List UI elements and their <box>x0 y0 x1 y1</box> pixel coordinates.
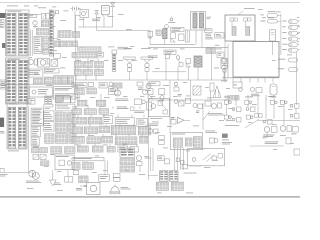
component GC3 <box>291 127 298 135</box>
header label top-left2 <box>24 5 29 8</box>
divider wire <box>0 83 78 85</box>
label alarm siren <box>121 187 131 189</box>
connector edge AH1 <box>294 149 300 155</box>
connector ER3 <box>66 41 72 47</box>
wire <box>249 78 251 83</box>
box BL7 <box>88 83 93 87</box>
connector LM1 <box>54 54 61 59</box>
label LE7 <box>0 174 8 176</box>
label ground G2 <box>54 183 61 185</box>
label battery <box>63 10 68 13</box>
amp cluster TA1 <box>171 117 190 124</box>
inline conn SX4 <box>176 158 184 164</box>
connector BL1 <box>32 148 39 153</box>
component IG7 <box>185 30 189 42</box>
wire <box>177 148 179 170</box>
ECM pin sym2 <box>244 18 251 35</box>
stack SK1 <box>120 148 135 157</box>
label glow <box>215 44 220 47</box>
pair sym PA2 <box>232 107 241 112</box>
wire <box>75 134 77 137</box>
wire <box>283 104 285 125</box>
wire <box>257 98 259 114</box>
pair sym PB1 <box>245 97 253 105</box>
cluster TC1 <box>174 100 184 106</box>
connector EW1 <box>58 31 71 38</box>
wire <box>265 98 267 120</box>
connector DP2 <box>36 28 48 35</box>
wire <box>273 95 275 100</box>
wire <box>104 161 106 175</box>
sensor pill 1 <box>282 20 299 24</box>
sensor LV3 <box>174 82 182 96</box>
pair sym PA1 <box>224 97 231 105</box>
connector G6 <box>95 70 104 76</box>
connector BL5 <box>41 161 49 166</box>
page bottom rule <box>0 196 300 197</box>
wire <box>152 71 186 73</box>
relay box RB1 <box>54 87 77 100</box>
wire <box>169 80 171 100</box>
connector column C3 <box>49 10 53 56</box>
box SC <box>98 52 104 57</box>
sensor pill 3 <box>282 31 300 35</box>
wire <box>119 124 121 127</box>
wire <box>131 115 133 118</box>
connector R4A <box>72 127 83 134</box>
wire <box>100 94 102 100</box>
wire <box>78 26 113 28</box>
wire <box>264 78 266 83</box>
relay RC1 <box>55 96 62 103</box>
wire <box>190 80 192 100</box>
ECM box U1 <box>225 15 255 41</box>
connector RC9 <box>55 134 67 143</box>
wire <box>75 75 77 80</box>
DLC connector A <box>156 182 168 190</box>
connector MC3 <box>45 134 54 143</box>
connector R5B <box>87 137 101 144</box>
transmission box U2 <box>233 42 279 78</box>
connector R5A <box>72 136 84 143</box>
wire <box>75 15 77 98</box>
pair sym PC3 <box>290 104 299 109</box>
relay group box TG1 <box>171 133 203 150</box>
connector BL8 <box>74 89 84 95</box>
wire <box>4 172 29 174</box>
wire <box>240 78 242 83</box>
label box LB1 <box>148 82 160 86</box>
label MS11 <box>214 67 219 70</box>
sensor TA3 <box>148 129 158 134</box>
wire <box>112 106 114 109</box>
pair sym PA4 <box>232 118 241 123</box>
wire <box>125 106 127 109</box>
wire <box>201 30 203 47</box>
connector LE2 <box>0 20 4 28</box>
wire <box>133 124 135 127</box>
connector SB2 <box>27 99 35 104</box>
box TC2 <box>185 99 190 104</box>
label MS4 <box>148 56 158 58</box>
label strip LM2 <box>44 68 59 73</box>
wire <box>97 58 99 61</box>
wire <box>88 134 90 137</box>
wire <box>150 148 152 171</box>
wire <box>247 95 249 100</box>
wire bus left pair <box>31 30 33 56</box>
branch group BG2 <box>251 88 263 97</box>
wire <box>139 166 141 173</box>
wire <box>75 106 77 109</box>
junction block J3 <box>0 118 4 127</box>
connector IG2 <box>156 30 161 35</box>
wire <box>257 95 259 100</box>
relay pair RL1 <box>42 13 50 19</box>
connector R4D wide <box>111 126 135 135</box>
label circuit opening relay <box>92 19 100 21</box>
fuel gauge cluster <box>29 170 39 179</box>
oxygen sensor tree 2 <box>141 57 153 80</box>
connector R3B <box>88 117 102 124</box>
valve MS5 <box>186 59 191 68</box>
component LV5 <box>210 83 214 91</box>
stack SK3 <box>120 166 135 172</box>
sensor pill 4 <box>282 37 300 41</box>
connector LM6 <box>54 76 60 84</box>
wire <box>85 75 87 80</box>
wire <box>177 66 179 80</box>
wire <box>136 144 138 146</box>
node circle NC1 <box>165 25 169 29</box>
connector R4B <box>84 127 98 134</box>
label R2D <box>134 111 145 113</box>
wire <box>128 134 130 137</box>
connector LM8 <box>68 76 74 84</box>
fuse list FL3 <box>31 138 39 146</box>
box SX2 <box>158 156 165 161</box>
ground G2 <box>50 170 57 186</box>
connector RC7 <box>55 123 66 132</box>
wire <box>103 115 105 118</box>
connector R4C <box>99 126 110 133</box>
valve IG5 <box>171 33 176 42</box>
label transmission TB2 <box>150 117 162 120</box>
sensor row RS1 <box>261 11 281 17</box>
pair sym PB4 <box>255 114 262 118</box>
scattered wire labels <box>27 6 299 194</box>
bus wire BW3 <box>222 77 279 79</box>
generator cluster GC2 <box>280 126 291 132</box>
label box R3D <box>115 118 134 126</box>
connector G3 <box>95 61 104 67</box>
connector RC10 <box>69 134 75 143</box>
connector R6A <box>77 146 88 152</box>
wire <box>202 103 204 130</box>
branch group BG1 <box>228 82 242 100</box>
label fuel sender <box>26 181 41 183</box>
connector SB3 <box>26 98 28 100</box>
wire <box>79 144 81 146</box>
wire <box>224 41 226 78</box>
ignition switch IG1 <box>38 58 50 67</box>
connector G4 <box>74 70 82 76</box>
label box MS1 <box>164 50 176 55</box>
funnel LV6 <box>213 86 221 98</box>
wire <box>97 30 150 32</box>
cluster LV2 <box>158 89 165 102</box>
wire <box>112 13 114 27</box>
wire <box>174 148 176 170</box>
connector ER2 <box>59 41 65 47</box>
pair sym PB2 <box>246 107 255 112</box>
wire <box>257 78 259 83</box>
wire <box>94 144 96 146</box>
label strip BL6 <box>72 83 87 88</box>
label strip IG8 <box>205 29 212 33</box>
connector N6 <box>79 176 88 183</box>
label rear defogger <box>225 124 239 127</box>
connector R2B <box>84 109 96 115</box>
wire <box>169 98 171 133</box>
label R1C <box>115 99 128 101</box>
wire <box>87 58 89 61</box>
label ignition <box>38 6 46 9</box>
wire diag RD1 <box>245 119 259 128</box>
wire <box>115 134 117 137</box>
connector R6B <box>92 146 103 152</box>
wire <box>182 148 184 170</box>
cluster R1D <box>134 99 145 105</box>
box MS9 <box>217 52 224 58</box>
ecu box BR3 <box>55 155 74 170</box>
connector R1A <box>77 100 87 106</box>
connector BR2 <box>65 147 75 153</box>
connector MS7 <box>206 48 211 53</box>
starting box SB1 <box>29 87 52 97</box>
wire <box>50 16 52 41</box>
diode D2 <box>95 11 99 15</box>
connector strip SB <box>72 53 97 58</box>
box pair N8 <box>113 173 120 181</box>
connector IG3 <box>148 31 153 38</box>
junction strip RC4 <box>55 104 75 111</box>
connector DP5 <box>42 49 48 54</box>
wire <box>83 18 85 28</box>
wire <box>87 68 89 70</box>
connector DP3 <box>42 37 48 42</box>
wire <box>148 174 158 176</box>
DLC connector B <box>171 182 183 190</box>
wire <box>99 106 101 109</box>
connector G1 <box>74 61 82 67</box>
strip T3 <box>44 105 53 108</box>
tall connector T2 <box>49 96 52 104</box>
label box CPS <box>171 27 184 31</box>
connector RC2 <box>64 96 71 103</box>
wire <box>225 104 227 115</box>
label strip LS1 <box>72 157 104 161</box>
ECM pin sym1 <box>230 18 238 35</box>
oxygen sensor tree 1 <box>124 57 136 80</box>
wire <box>147 100 149 180</box>
wire <box>74 124 76 127</box>
box N2 <box>73 171 78 175</box>
box R3C <box>103 116 113 124</box>
wire <box>149 30 151 45</box>
label RD3 <box>222 142 232 144</box>
horn relay circle <box>33 21 37 29</box>
cylinder MS10 <box>221 59 228 69</box>
connector BL2 <box>40 148 48 153</box>
bus wire BW5 <box>148 99 230 101</box>
wire <box>76 15 81 17</box>
label box IG9 <box>215 33 224 38</box>
fuse list FL1 <box>31 108 44 125</box>
connector RC6 <box>68 113 75 122</box>
connector strip SA <box>78 47 101 51</box>
wire <box>272 78 274 83</box>
connector LM5 <box>44 77 52 84</box>
valve V1 <box>110 2 115 13</box>
wire <box>78 95 80 101</box>
connector ER4 <box>73 41 78 47</box>
wire <box>95 75 97 80</box>
box R6E <box>130 147 138 152</box>
wire <box>187 67 189 80</box>
connector R6C <box>107 147 115 152</box>
distributor D0 <box>51 12 55 20</box>
wire <box>143 115 145 118</box>
cluster BL12 <box>113 83 122 96</box>
label transmission ecm <box>244 7 255 10</box>
fuse box LE4 <box>0 80 9 89</box>
wire <box>195 30 197 45</box>
wire <box>266 132 268 138</box>
wire <box>28 106 30 173</box>
wire right mid <box>258 120 300 122</box>
component RD2 <box>222 134 229 141</box>
sensor IG6 <box>179 34 184 41</box>
connector R2C <box>99 109 109 114</box>
text block dist <box>205 34 213 40</box>
connector DP1 <box>41 21 48 27</box>
wire <box>141 134 143 137</box>
trans ecu box TB1 <box>149 99 170 117</box>
label noise filter <box>168 21 175 24</box>
wire <box>77 115 79 118</box>
cluster TG4 <box>159 135 165 144</box>
connector R1B <box>96 100 106 106</box>
radiator fan motor <box>76 183 100 195</box>
component MS2 <box>166 55 170 59</box>
label box MC2 <box>43 122 54 132</box>
wire <box>48 47 54 49</box>
ignition coil box IC1 <box>191 11 206 30</box>
sensor pill 2 <box>282 25 300 29</box>
sensor TC3 <box>193 104 202 113</box>
wire <box>97 68 99 70</box>
connector R4E <box>138 127 150 135</box>
sensor X-circle XC1 <box>145 84 151 91</box>
bus wire BW4 <box>75 79 228 81</box>
wire <box>107 161 109 174</box>
component TL3 <box>55 10 59 13</box>
label box MC1 <box>43 111 54 120</box>
connector G5 <box>84 70 93 76</box>
fuse list FL0 <box>34 36 41 53</box>
wire <box>74 11 76 32</box>
connector R2A <box>72 109 82 115</box>
connector BR4 <box>65 177 73 183</box>
wire <box>180 148 182 170</box>
label ac amp TA2 <box>148 124 159 126</box>
relay BL4 <box>40 154 46 159</box>
wire <box>225 95 227 100</box>
connector R3A <box>72 117 87 124</box>
relay BL10 <box>99 83 107 88</box>
connector column CC1 <box>112 50 117 72</box>
battery BT1 <box>71 6 81 11</box>
cluster BL13 <box>137 82 148 95</box>
wire <box>109 144 111 146</box>
box N7 <box>99 175 110 182</box>
label solenoid TC5 <box>208 113 224 115</box>
wire <box>105 124 107 127</box>
wire <box>247 104 249 107</box>
branch group BG3 <box>268 84 277 97</box>
connector RC5 <box>55 113 66 122</box>
wire diag TG5 <box>203 111 210 120</box>
solenoid S1 <box>101 5 109 16</box>
fuse list FL2 <box>31 126 40 136</box>
sensor row RS2 <box>261 17 281 23</box>
label o2 sensor 1 <box>124 47 132 50</box>
wire <box>235 95 237 100</box>
sender unit LE6 <box>0 168 4 172</box>
label dlc3 <box>184 172 197 175</box>
connector EW2 <box>73 32 80 38</box>
pair sym PC1 <box>270 97 277 105</box>
connector bank B2 <box>6 58 30 104</box>
connector R5D wide <box>115 137 137 145</box>
injector cyl IJ0 <box>270 30 276 55</box>
pair sym PB5 <box>263 120 272 125</box>
component GC4 <box>265 138 291 144</box>
coil IG4 <box>163 29 167 45</box>
label coil right <box>207 17 211 19</box>
wire <box>87 106 89 109</box>
wire <box>29 14 42 16</box>
wire <box>210 91 212 100</box>
wire <box>139 106 141 109</box>
relay BL3 <box>33 154 39 159</box>
wire <box>102 134 104 137</box>
stripe sensor LV4 <box>193 86 201 95</box>
connector R5E <box>140 136 148 143</box>
alarm siren <box>110 185 120 194</box>
label check connector <box>118 47 131 49</box>
label box LM3 <box>28 69 43 77</box>
cluster BL11 <box>109 82 119 94</box>
pill row 6 <box>278 58 298 62</box>
connector RC8 <box>68 123 75 132</box>
label LE5 <box>0 131 5 133</box>
wire <box>103 17 105 28</box>
label N5 <box>145 156 152 158</box>
component R1E <box>146 102 152 110</box>
wire <box>227 44 229 78</box>
